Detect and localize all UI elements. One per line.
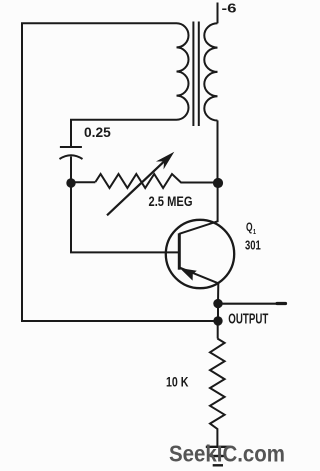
transistor Q1 base bar xyxy=(178,233,181,269)
capacitor C1 0.25 curved plate xyxy=(60,155,83,159)
wire: secondary top to -6 supply terminal xyxy=(217,3,219,24)
svg-text:1: 1 xyxy=(253,227,256,236)
junction dot: collector / resistor node xyxy=(213,178,223,188)
transformer T1 core xyxy=(193,22,198,127)
svg-text:10 K: 10 K xyxy=(166,373,189,389)
junction dot: output / feedback node xyxy=(213,316,222,325)
wire: output line end blob xyxy=(277,302,286,305)
transistor Q1 emitter lead xyxy=(179,267,218,303)
transistor Q1 collector lead xyxy=(179,183,217,234)
capacitor C1 0.25 top plate xyxy=(60,146,82,148)
ground symbol bar 3 xyxy=(213,464,223,466)
svg-text:0.25: 0.25 xyxy=(84,124,111,140)
transistor Q1 circle xyxy=(166,220,234,288)
svg-text:SeekIC.com: SeekIC.com xyxy=(169,441,285,467)
junction dot: emitter / output node xyxy=(213,299,222,308)
transistor Q1 emitter arrow (PNP, points to base) xyxy=(180,268,197,281)
junction dot: capacitor / resistor / base node xyxy=(66,178,75,187)
svg-text:301: 301 xyxy=(245,239,261,253)
transformer T1 secondary winding (right, 4 loops) xyxy=(204,23,217,120)
svg-text:2.5 MEG: 2.5 MEG xyxy=(149,193,193,209)
svg-text:-6: -6 xyxy=(222,0,237,15)
ground symbol bar 1 xyxy=(206,446,230,448)
wire: capacitor bottom to junction and down to base xyxy=(71,157,179,253)
potentiometer arrow shaft xyxy=(107,157,169,216)
transformer T1 primary winding (left, 4 loops) xyxy=(177,23,189,119)
wire: output line to the right xyxy=(218,303,285,305)
svg-text:Q: Q xyxy=(246,222,253,234)
variable resistor R1 2.5 MEG zigzag xyxy=(95,174,214,188)
svg-text:OUTPUT: OUTPUT xyxy=(228,312,268,328)
potentiometer arrowhead xyxy=(156,152,174,170)
resistor R2 10 K zigzag xyxy=(210,339,225,447)
wire: primary bottom to capacitor top xyxy=(71,120,177,146)
wire: secondary bottom down to collector node xyxy=(217,120,219,179)
wire: output node down to resistor xyxy=(217,321,219,339)
ground symbol bar 2 xyxy=(210,455,224,457)
wire: emitter node down to output node xyxy=(217,304,219,321)
wire: feedback loop (top-left, left side, bottom to output node) xyxy=(22,23,214,321)
wire: left junction to resistor start xyxy=(71,181,95,183)
